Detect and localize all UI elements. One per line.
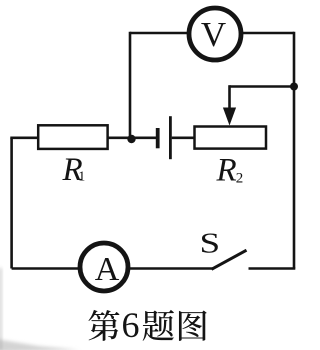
scan artifact: bottom-left gray wedge [0, 339, 80, 350]
wire: top-right horizontal from voltmeter to right rail [240, 32, 294, 35]
voltmeter V [189, 8, 241, 60]
wire: bottom-right horizontal from switch to right rail [249, 267, 296, 270]
resistor R1 [38, 125, 107, 149]
battery cell: long thin positive plate [169, 116, 172, 159]
wire: left vertical drop from top wire to battery node B [129, 32, 132, 139]
rheostat R2 body [195, 127, 267, 149]
wire: wiper feed horizontal from right rail to arrow [230, 85, 295, 88]
svg-text:V: V [201, 15, 226, 54]
rheostat wiper arrow head [223, 108, 236, 126]
wire: R1 left lead from left rail [10, 137, 38, 140]
svg-text:1: 1 [78, 169, 85, 184]
wire: bottom horizontal from ammeter to switch [129, 267, 213, 270]
wire: right rail vertical [293, 32, 296, 269]
caption: 图 [179, 311, 207, 341]
ammeter A [80, 243, 128, 291]
switch S blade [212, 250, 247, 269]
svg-text:2: 2 [236, 170, 244, 186]
battery cell: short thick negative plate [156, 128, 160, 148]
caption: 题 [143, 310, 174, 341]
wire: R1 right lead to node B [108, 137, 156, 140]
svg-text:6: 6 [122, 305, 140, 345]
rheostat wiper arrow shaft [228, 85, 231, 110]
node C junction dot (right rail / wiper tap) [290, 83, 298, 91]
svg-text:R: R [216, 153, 237, 189]
scan artifact: left edge gray streak [0, 268, 2, 350]
svg-text:S: S [199, 227, 220, 259]
node B junction dot (battery / R1 / voltmeter tap) [127, 135, 135, 143]
wire: bottom-left horizontal from left rail to ammeter [12, 267, 79, 270]
caption: 第 [88, 310, 119, 341]
svg-text:A: A [95, 251, 120, 288]
wire: top-left horizontal from node B to voltmeter [130, 32, 190, 35]
wire: battery positive lead to rheostat R2 [172, 137, 195, 140]
wire: left rail vertical [10, 138, 13, 269]
